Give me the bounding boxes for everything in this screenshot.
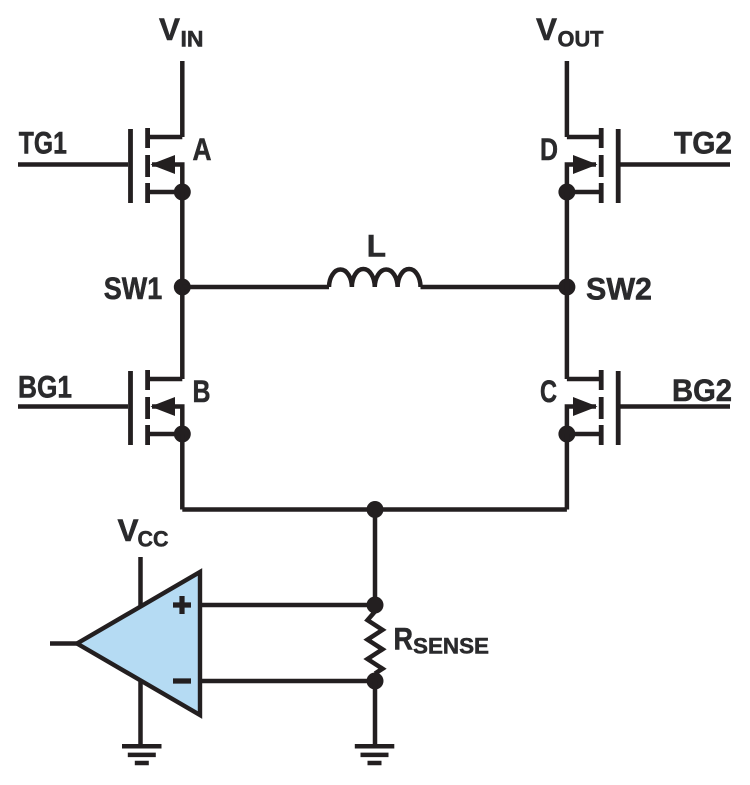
- wire op-amp output stub: [50, 641, 78, 646]
- junction dot A source: [174, 184, 191, 201]
- wire D source to SW2: [565, 192, 570, 287]
- wire VOUT to Q-D drain: [565, 61, 570, 137]
- wire TG1 gate lead: [18, 162, 128, 167]
- ground under RSENSE: [355, 746, 395, 763]
- op-amp U1: [77, 572, 200, 715]
- wire SW2 to Q-C drain: [565, 287, 570, 379]
- transistor C (bottom gate switch, mirrored): [567, 370, 618, 445]
- node SW1 dot: [174, 279, 191, 296]
- wire TG2 gate lead: [621, 162, 731, 167]
- svg-text:V: V: [159, 11, 180, 47]
- wire SW1 to Q-B drain: [180, 287, 185, 379]
- inductor L: [329, 269, 421, 287]
- transistor D (top gate switch, mirrored): [567, 128, 618, 203]
- junction dot D source: [558, 184, 575, 201]
- svg-text:BG2: BG2: [672, 372, 732, 408]
- junction dot RSENSE top: [367, 597, 384, 614]
- svg-text:R: R: [394, 621, 414, 657]
- wire C source down to bottom rail: [565, 434, 570, 510]
- wire SW1 to inductor: [182, 285, 329, 290]
- node VOUT label: [536, 11, 604, 52]
- svg-text:TG2: TG2: [674, 125, 732, 161]
- wire RSENSE bottom to ground: [373, 681, 378, 746]
- wire op-amp negative supply lead: [138, 680, 143, 746]
- wire B source down to bottom rail: [180, 434, 185, 510]
- wire VIN to Q-A drain: [180, 61, 185, 137]
- wire inductor to SW2: [421, 285, 567, 290]
- svg-text:L: L: [367, 228, 386, 264]
- junction dot C source: [558, 426, 575, 443]
- junction dot B source: [174, 426, 191, 443]
- svg-text:SW2: SW2: [586, 271, 652, 307]
- wire A source to SW1: [180, 192, 185, 287]
- svg-text:C: C: [540, 373, 557, 409]
- op-amp plus sign: [173, 596, 191, 614]
- wire BG1 gate lead: [18, 404, 128, 409]
- node VCC label: [118, 512, 169, 552]
- label RSENSE: [394, 621, 490, 659]
- junction dot center of bottom rail: [367, 501, 384, 518]
- svg-text:IN: IN: [181, 27, 204, 52]
- svg-text:V: V: [118, 512, 139, 548]
- svg-text:A: A: [193, 131, 212, 167]
- node VIN label: [159, 11, 204, 52]
- svg-text:TG1: TG1: [19, 125, 67, 161]
- svg-text:D: D: [540, 131, 558, 167]
- wire VCC supply lead into op-amp: [138, 557, 143, 607]
- junction dot RSENSE bottom: [367, 673, 384, 690]
- transistor B (bottom gate switch): [131, 370, 183, 445]
- wire BG2 gate lead: [621, 404, 731, 409]
- svg-text:BG1: BG1: [18, 369, 72, 405]
- transistor A (top gate switch): [131, 128, 183, 203]
- svg-text:B: B: [193, 373, 211, 409]
- wire op-amp minus input: [200, 679, 375, 684]
- node SW2 dot: [558, 279, 575, 296]
- svg-text:CC: CC: [138, 527, 169, 552]
- wire center node down to RSENSE top: [373, 510, 378, 606]
- resistor RSENSE: [368, 612, 383, 674]
- op-amp minus sign: [173, 678, 191, 683]
- svg-text:OUT: OUT: [558, 27, 604, 52]
- ground under op-amp: [122, 746, 162, 763]
- wire bottom rail: [182, 507, 567, 512]
- svg-text:SW1: SW1: [104, 270, 163, 306]
- wire op-amp plus input: [200, 603, 375, 608]
- svg-text:V: V: [536, 11, 557, 47]
- svg-text:SENSE: SENSE: [413, 634, 489, 659]
